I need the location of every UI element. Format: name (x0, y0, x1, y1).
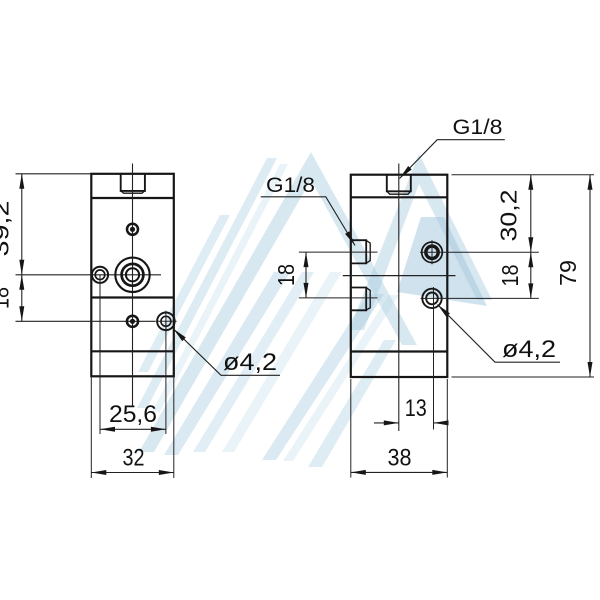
extension line hole right (165, 321, 167, 434)
svg-text:39,2: 39,2 (0, 201, 14, 257)
svg-text:18: 18 (497, 265, 523, 287)
upper port centerline (299, 251, 378, 253)
svg-text:25,6: 25,6 (109, 401, 157, 428)
extension line bottom right (452, 376, 595, 378)
dimension line 13 (374, 422, 399, 424)
extension line hole left (99, 275, 101, 434)
extension line body right edge (173, 376, 175, 478)
dimension line 18 far right (530, 252, 532, 298)
upper side port G1/8 (351, 240, 366, 263)
left view divider line middle (91, 296, 174, 298)
leader line G1/8 side port (261, 197, 355, 246)
dimension line 25,6 (100, 428, 166, 430)
lower side port G1/8 (351, 288, 366, 311)
pilot screw circle (127, 224, 138, 235)
svg-text:30,2: 30,2 (496, 190, 522, 242)
svg-text:G1/8: G1/8 (266, 173, 315, 197)
dimension line 39,2 (21, 174, 23, 275)
leader line G1/8 top port (400, 140, 505, 179)
right view vertical centerline (398, 164, 400, 432)
svg-text:18: 18 (0, 287, 14, 309)
watermark logo (137, 152, 492, 467)
dimension line 79 (589, 175, 591, 377)
extension line mounting hole vertical (433, 287, 435, 430)
svg-text:18: 18 (273, 264, 299, 286)
leader line diameter 4,2 right view (438, 305, 561, 363)
mounting hole circle right view (422, 289, 441, 308)
svg-text:32: 32 (123, 445, 145, 472)
leader line diameter 4,2 left view (173, 329, 280, 376)
left view divider line lower (91, 350, 174, 352)
extension line upper screw (444, 251, 539, 253)
dimension line 18 right view (305, 252, 307, 298)
svg-text:13: 13 (405, 395, 427, 422)
extension line top left (16, 173, 92, 175)
left view body outline (91, 174, 174, 376)
extension line right body left edge (350, 379, 352, 478)
left view top plug G1/8 port (121, 174, 145, 191)
mounting hole circle left view (157, 313, 175, 331)
dimension line 18 left view (21, 275, 23, 322)
extension line lower holes left (16, 320, 156, 322)
svg-text:79: 79 (555, 260, 581, 286)
extension line body left edge (90, 376, 92, 478)
side hole circle (92, 267, 108, 283)
dimension line 38 (351, 471, 448, 473)
left view divider line upper (91, 197, 174, 199)
right view divider line upper (351, 196, 448, 198)
dimension line 30,2 (530, 175, 532, 253)
extension line top right (452, 174, 595, 176)
svg-text:G1/8: G1/8 (453, 115, 503, 139)
left view vertical centerline (132, 164, 134, 408)
lower port centerline (299, 297, 378, 299)
right view divider line lower (351, 350, 448, 352)
right view body outline (351, 175, 448, 377)
right view top plug G1/8 port (387, 175, 411, 191)
left view horizontal port centerline (16, 274, 162, 276)
svg-text:ø4,2: ø4,2 (502, 336, 556, 363)
extension line mounting hole (444, 297, 539, 299)
dimension line 32 (91, 472, 174, 474)
right view mid parting line (343, 275, 456, 277)
bottom screw circle (127, 316, 138, 327)
svg-text:ø4,2: ø4,2 (223, 349, 277, 376)
main port circle (115, 258, 149, 292)
mounting hole crosshair (155, 320, 176, 322)
svg-text:38: 38 (388, 445, 412, 472)
upper screw circle right view (422, 242, 443, 263)
extension line right body right edge (446, 379, 448, 478)
